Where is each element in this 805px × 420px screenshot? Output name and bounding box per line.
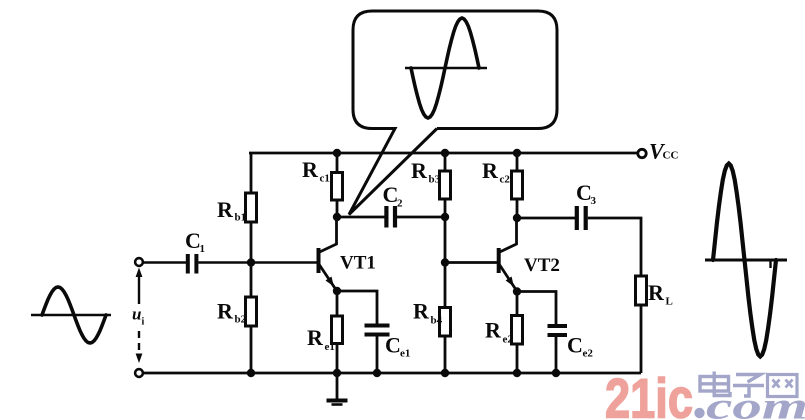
node Ce1 ground: [373, 369, 381, 377]
label Rc1: [302, 157, 330, 185]
capacitor C2: [384, 206, 397, 228]
capacitor C1: [186, 254, 199, 274]
svg-text:R: R: [413, 299, 430, 324]
node Rb2 ground: [247, 369, 255, 377]
capacitor Ce1: [365, 324, 390, 337]
label RL: [648, 280, 673, 308]
wire C2 to stage2: [397, 216, 445, 219]
node Re1 ground: [333, 369, 341, 377]
output sine wave: [713, 164, 776, 357]
wire emitter VT1 to Ce1: [337, 291, 377, 324]
wire Rc1 branch: [336, 153, 339, 217]
label Rb4: [413, 299, 443, 327]
resistor Rc1: [332, 173, 343, 201]
node Rb4 ground: [441, 369, 449, 377]
wire Rb2 branch lower: [250, 263, 253, 374]
svg-text:VT2: VT2: [524, 255, 560, 276]
bubble sine axis: [405, 67, 487, 70]
svg-text:L: L: [666, 296, 673, 308]
svg-text:2: 2: [397, 198, 403, 210]
svg-text:R: R: [411, 158, 428, 183]
wire emitter VT2 to Ce2: [517, 292, 556, 325]
wire input to C1: [143, 261, 187, 264]
wire Rb3 branch: [444, 153, 447, 263]
svg-text:3: 3: [591, 195, 597, 207]
watermark char dian: [700, 372, 730, 396]
wire emitter VT2 to ground: [516, 292, 519, 374]
node Vcc rail Rb3: [441, 149, 449, 157]
wire C3 to RL: [588, 218, 641, 276]
wire Rb1 branch upper: [250, 153, 253, 263]
svg-text:b3: b3: [429, 174, 441, 186]
svg-text:VT1: VT1: [340, 253, 376, 274]
terminal input bottom: [135, 369, 143, 377]
svg-text:i: i: [142, 317, 145, 328]
input sine wave: [42, 287, 106, 343]
node Vcc rail Rc1: [333, 149, 341, 157]
node emitter VT1: [333, 287, 341, 295]
node collector VT2: [513, 214, 521, 222]
wire Rc2 branch: [516, 153, 519, 218]
resistor Rb4: [440, 308, 451, 337]
node collector VT1: [333, 213, 341, 221]
label Rc2: [482, 158, 510, 186]
svg-text:e1: e1: [400, 348, 410, 360]
wire collector VT1 to C2: [337, 216, 385, 219]
svg-text:e1: e1: [325, 341, 335, 353]
svg-text:R: R: [307, 325, 324, 350]
wire Ce2 to ground: [555, 337, 558, 373]
label C3: [576, 180, 597, 207]
resistor Re2: [512, 316, 523, 345]
terminal input top: [135, 258, 143, 266]
wire base VT2: [445, 261, 497, 264]
svg-text:R: R: [302, 157, 319, 182]
svg-text:R: R: [648, 280, 665, 305]
node base VT1: [247, 258, 255, 266]
svg-text:c1: c1: [320, 173, 330, 185]
ui arrow line upper: [138, 276, 140, 304]
output sine axis tick: [769, 260, 771, 268]
callout bubble with tail: [349, 11, 557, 215]
svg-text:com: com: [706, 386, 805, 420]
ui arrow line lower dashed: [138, 331, 140, 353]
svg-text:C: C: [383, 182, 399, 207]
transistor VT1: [319, 217, 337, 291]
input sine axis: [31, 314, 111, 317]
svg-text:21ic: 21ic: [605, 367, 693, 420]
node emitter VT2: [513, 287, 521, 295]
svg-text:u: u: [132, 305, 141, 324]
label C1: [185, 228, 205, 255]
watermark char wang: [768, 375, 798, 397]
node Vcc rail Rc2: [513, 149, 521, 157]
resistor Rb3: [440, 171, 451, 199]
capacitor C3: [575, 206, 588, 230]
svg-text:C: C: [385, 333, 401, 358]
resistor Re1: [332, 316, 343, 344]
label Rb1: [217, 197, 246, 224]
label Ce2: [567, 333, 593, 360]
svg-text:C: C: [185, 228, 201, 253]
svg-text:R: R: [485, 318, 502, 343]
wire collector VT2 to C3: [517, 217, 575, 220]
wire ground rail: [142, 372, 641, 375]
svg-text:b4: b4: [431, 315, 443, 327]
ui arrow up: [136, 268, 143, 278]
resistor Rb2: [246, 297, 257, 326]
node C2 Rb3 junction: [441, 213, 449, 221]
label Rb3: [411, 158, 441, 186]
svg-text:b2: b2: [235, 314, 247, 326]
wire C1 to base node: [198, 261, 317, 264]
svg-text:e2: e2: [583, 348, 594, 360]
ui arrow down: [136, 354, 143, 364]
wire Ce1 to ground: [376, 337, 379, 374]
watermark char zi: [733, 375, 764, 397]
terminal Vcc: [638, 149, 646, 157]
svg-text:CC: CC: [663, 150, 679, 162]
label Rb2: [217, 299, 247, 326]
label Re1: [307, 325, 335, 353]
node Ce2 ground: [552, 369, 560, 377]
wire RL to ground: [640, 305, 643, 373]
wire Rb4 branch: [444, 263, 447, 374]
resistor RL: [636, 276, 647, 305]
node base VT2: [441, 258, 449, 266]
bubble sine wave: [411, 18, 479, 118]
capacitor Ce2: [548, 324, 568, 337]
svg-text:C: C: [576, 180, 592, 205]
svg-text:R: R: [482, 158, 499, 183]
label Re2: [485, 318, 513, 346]
label Ce1: [385, 333, 410, 360]
resistor Rc2: [512, 171, 523, 199]
node Re2 ground: [513, 369, 521, 377]
ground: [327, 373, 348, 405]
watermark dot: [694, 408, 704, 418]
wire Vcc rail: [249, 152, 638, 155]
svg-text:1: 1: [200, 243, 206, 255]
wire emitter VT1 to ground: [336, 291, 339, 373]
output sine axis: [705, 259, 787, 262]
svg-text:e2: e2: [503, 334, 514, 346]
svg-text:b1: b1: [235, 212, 247, 224]
svg-text:R: R: [217, 299, 234, 324]
label C2: [383, 182, 404, 210]
svg-text:R: R: [217, 197, 234, 222]
transistor VT2: [499, 218, 517, 291]
svg-text:c2: c2: [500, 174, 511, 186]
svg-text:C: C: [567, 333, 583, 358]
resistor Rb1: [246, 193, 257, 222]
